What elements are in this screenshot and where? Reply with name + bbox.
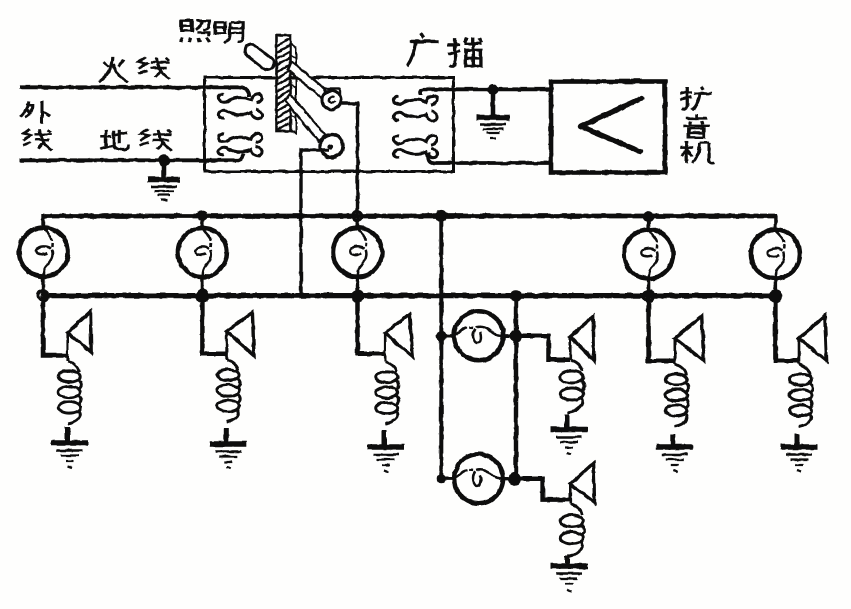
node L6 right [510,330,522,342]
speaker SP5 horn lead [673,338,676,364]
wire SP4 ground stub [565,414,570,428]
speaker SP3 feed wire [358,296,386,354]
inductor SP6 matching coil [790,364,813,427]
node L3 top (ring) [353,211,363,221]
speaker SP1 feed wire [43,296,68,356]
speaker SP4 feed wire [516,336,570,360]
wire power bus (upper) [43,214,775,219]
switch pivot upper [322,89,341,110]
ground SP1 earth symbol [51,443,88,468]
inductor SP7 matching coil [560,504,584,557]
lamp L2 with leads [201,216,204,296]
speaker SP7 horn lead [569,484,572,504]
speaker SP3 horn lead [384,333,387,361]
amplifier chevron symbol [581,98,643,152]
transformer T2 winding top stroke1 [393,96,437,105]
node L4 bottom (ring) [644,292,654,302]
node L1 bottom (ring) [38,291,48,301]
node middle drop at PA bus [510,290,522,302]
transformer T1 winding bottom stroke1 [218,133,262,142]
speaker SP6 horn [799,316,827,361]
ground SP6 earth symbol [781,447,818,472]
wire live line (huoxian) [20,87,250,96]
speaker SP5 feed wire [649,296,675,360]
speaker SP7 horn [570,463,594,503]
inductor SP2 matching coil [217,360,240,423]
speaker SP2 feed wire [202,296,226,354]
label zhaoming (lighting) [181,21,210,42]
speaker SP2 horn [227,312,254,355]
label dixian (earth line) [100,130,129,150]
transformer T1 winding top stroke1 [218,94,262,103]
label waixian (outside line) [20,101,50,124]
lamp L7 (middle lower) with leads [441,477,514,480]
inductor SP1 matching coil [58,361,81,424]
wire from upper pivot to bus junction [340,104,358,217]
label guangbo (broadcast) [407,33,439,66]
transformer T2 winding bottom stroke2 [393,148,437,157]
node L7 left [437,474,446,483]
ground amplifier earth symbol [477,118,510,139]
ground SP5 earth symbol [656,447,693,472]
lamp L4 with leads [647,216,650,297]
speaker SP1 horn lead [66,333,69,362]
inductor SP4 matching coil [560,360,584,413]
node middle drop at power bus [436,210,447,221]
switch blade lower [286,95,326,142]
speaker SP3 horn [385,314,413,357]
wire SP1 ground stub [65,427,70,442]
lamp L6 (middle upper) with leads [441,334,516,337]
speaker SP4 horn lead [569,337,572,360]
speaker SP6 feed wire [775,296,799,360]
node L5 bottom [768,289,782,303]
ground SP3 earth symbol [368,447,405,472]
wire ground stem [162,160,167,178]
switch handle knob [242,41,277,72]
node L2 bottom [195,289,209,303]
ground SP4 earth symbol [551,430,588,455]
switch insulating bar [277,36,297,134]
lamp L1 with leads [41,214,44,296]
wire SP3 ground stub [382,430,387,446]
transformer T2 winding top stroke2 [393,111,437,120]
wire SP5 ground stub [670,434,675,446]
wire middle drop from PA bus [514,296,518,479]
node L2 top [197,211,207,221]
wire from lower pivot down to PA bus [301,150,329,294]
amplifier U1 box [551,82,665,173]
node amplifier input ground tap [488,84,499,95]
ground left earth symbol [148,180,181,201]
ground SP2 earth symbol [210,444,247,469]
transformer T1 winding bottom stroke2 [218,146,262,155]
wire earth line (dixian) [20,154,244,161]
node L6 left [436,331,446,341]
speaker SP7 feed wire [515,479,570,500]
wire T2 top lead to amplifier [420,89,549,95]
ground SP7 earth symbol [551,566,588,591]
wire middle drop from power bus [439,216,443,479]
switch pivot lower [320,135,343,158]
label huoxian (live line) [99,57,128,82]
wire SP6 ground stub [795,434,800,446]
wire amp ground stem [491,89,496,116]
speaker SP6 horn lead [798,338,801,364]
wire SP7 ground stub [565,556,570,565]
inductor SP3 matching coil [376,362,399,425]
transformer T1 winding top stroke2 [218,109,262,118]
lamp L3 with leads [356,216,359,296]
wire SP2 ground stub [224,428,229,443]
node L7 right [508,472,521,485]
label kuoyinji (amplifier) [680,87,712,110]
speaker SP1 horn [68,312,92,353]
wire PA bus (lower) [43,293,775,298]
lamp L5 with leads [774,214,777,297]
node L3 bottom [352,290,365,303]
transformer box enclosure [205,78,454,172]
speaker SP4 horn [570,316,594,360]
node L4 top [643,211,654,222]
transformer T2 winding bottom stroke1 [393,135,437,144]
speaker SP2 horn lead [225,331,228,359]
speaker SP5 horn [675,316,704,361]
inductor SP5 matching coil [665,364,688,427]
switch blade upper [288,62,327,99]
node earth tap [158,154,170,166]
wire T2 bottom lead to amplifier [428,152,551,163]
